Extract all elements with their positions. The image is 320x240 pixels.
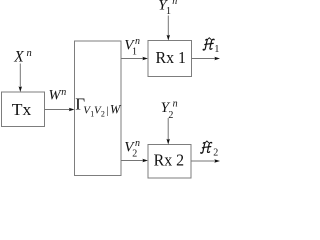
wire H1 estimate output from Rx 1: [192, 58, 217, 60]
wire V1^n from Gamma box to Rx 1: [121, 58, 144, 60]
wire H2 estimate output from Rx 2: [191, 160, 216, 162]
svg-text:n: n: [27, 48, 32, 59]
svg-text:Rx 2: Rx 2: [154, 150, 185, 169]
svg-text:n: n: [135, 36, 140, 47]
svg-text:n: n: [61, 87, 66, 98]
svg-text:1: 1: [214, 44, 219, 55]
svg-text:n: n: [173, 99, 178, 110]
block Tx: [2, 92, 45, 127]
svg-text:Rx 1: Rx 1: [156, 48, 187, 67]
svg-text:X: X: [13, 48, 24, 65]
svg-text:|: |: [106, 105, 108, 117]
block Gamma_{V1V2|W} channel: [75, 41, 122, 176]
node label hat-H2 (script H with hat): [201, 141, 212, 153]
svg-text:2: 2: [101, 110, 105, 119]
wire Y1^n input arrow into Rx 1: [167, 16, 169, 37]
svg-text:W: W: [110, 103, 122, 117]
wire Y2^n input arrow into Rx 2: [167, 118, 169, 140]
wire V2^n from Gamma box to Rx 2: [121, 160, 144, 162]
wire X^n input arrow into Tx: [19, 64, 21, 88]
svg-text:1: 1: [166, 6, 171, 17]
svg-text:2: 2: [168, 110, 173, 121]
svg-text:n: n: [172, 0, 177, 7]
svg-text:1: 1: [132, 46, 137, 57]
svg-text:2: 2: [213, 147, 218, 158]
block Rx 2: [148, 145, 191, 179]
svg-text:Tx: Tx: [12, 100, 32, 119]
node label hat-H1 (script H with hat): [203, 38, 214, 50]
block Rx 1: [148, 41, 192, 77]
svg-text:n: n: [135, 138, 140, 149]
svg-text:2: 2: [132, 148, 137, 159]
wire W^n from Tx to Gamma box: [45, 109, 71, 111]
